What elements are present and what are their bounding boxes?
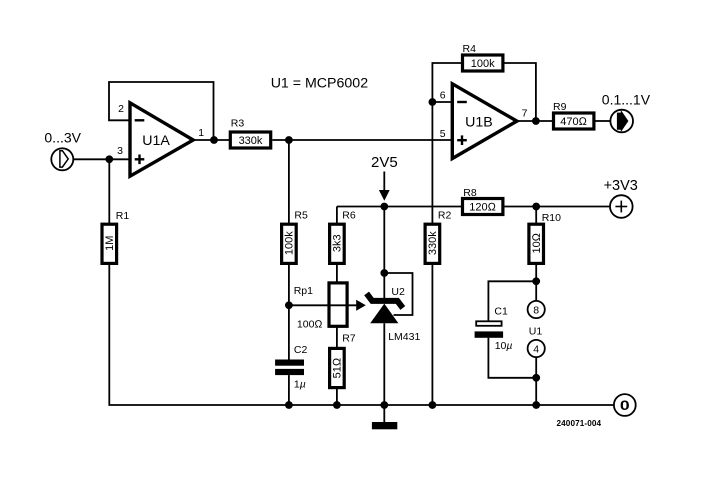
node U1A output junction [210, 136, 218, 144]
svg-text:10Ω: 10Ω [531, 232, 543, 253]
svg-text:U1 = MCP6002: U1 = MCP6002 [271, 76, 369, 92]
svg-text:R1: R1 [116, 210, 130, 222]
wire 2V5 node to U2 [383, 207, 385, 299]
resistor R10 10 ohm [529, 224, 544, 263]
wire R5 node to C2 [288, 305, 290, 359]
wire R8 to +3V3 [505, 206, 611, 208]
svg-text:7: 7 [522, 107, 528, 119]
potentiometer Rp1 [329, 283, 347, 326]
wire U1A feedback loop [109, 82, 214, 140]
node R3 output junction [285, 136, 293, 144]
svg-text:+3V3: +3V3 [604, 178, 638, 194]
node U2 cathode junction [380, 269, 388, 277]
svg-text:R4: R4 [463, 43, 477, 55]
svg-text:10µ: 10µ [495, 340, 513, 352]
svg-text:U1: U1 [529, 326, 543, 338]
svg-text:R2: R2 [438, 210, 452, 222]
input terminal 0...3V [51, 148, 73, 170]
svg-text:U1B: U1B [465, 115, 493, 131]
node input junction [105, 155, 113, 163]
wire node to pin8 circle [535, 281, 537, 301]
svg-text:0: 0 [620, 397, 630, 413]
svg-text:100Ω: 100Ω [297, 319, 323, 331]
resistor R4 100k [463, 55, 503, 71]
svg-text:240071-004: 240071-004 [557, 419, 602, 428]
wire U2 reference loop [384, 273, 412, 315]
wire pin4 node to rail [535, 378, 537, 405]
node rail U2 junction [380, 401, 388, 409]
svg-text:8: 8 [533, 305, 539, 317]
svg-text:U2: U2 [391, 286, 405, 298]
wire R5 to wiper node [288, 263, 290, 306]
wire input to U1A pin3 [74, 158, 131, 160]
shunt regulator U2 LM431 [367, 293, 403, 323]
svg-text:6: 6 [440, 90, 446, 102]
resistor R8 120 ohm [463, 199, 503, 215]
op-amp U1A [130, 103, 193, 176]
node 2V5 junction [380, 203, 388, 211]
resistor R9 470 ohm [554, 113, 594, 129]
resistor R3 330k [230, 132, 270, 148]
resistor R5 100k [282, 224, 297, 263]
svg-text:470Ω: 470Ω [560, 116, 587, 128]
capacitor C2 1u [275, 360, 304, 376]
resistor R6 3k3 [330, 224, 345, 263]
wire wiper arrow of Rp1 [289, 300, 366, 311]
wire C1 branch top [488, 281, 536, 321]
svg-text:3: 3 [117, 145, 123, 157]
wire pin6 node to U1B [432, 101, 452, 103]
capacitor C1 10u polarized [475, 321, 504, 338]
output terminal 0.1...1V [610, 110, 633, 133]
svg-text:R3: R3 [231, 118, 245, 130]
svg-text:5: 5 [440, 128, 446, 140]
svg-text:Rp1: Rp1 [294, 285, 313, 297]
wire R7 to ground rail [336, 388, 338, 405]
svg-text:1M: 1M [104, 236, 116, 251]
power terminal +3V3 [610, 195, 633, 218]
svg-text:330k: 330k [239, 135, 263, 147]
svg-text:4: 4 [533, 344, 539, 356]
svg-text:R10: R10 [542, 212, 561, 224]
node C1 bottom junction [532, 374, 540, 382]
wire R10 to pin8 node [535, 263, 537, 282]
wire C1 branch bottom [488, 338, 536, 378]
svg-text:2V5: 2V5 [371, 154, 398, 171]
svg-text:0...3V: 0...3V [44, 130, 81, 146]
wire U1B output to R9 [518, 120, 554, 122]
wire pin4 circle to bottom node [535, 357, 537, 378]
wire R2 to rail [431, 263, 433, 405]
node rail R7 junction [333, 401, 341, 409]
svg-text:1µ: 1µ [294, 379, 306, 391]
wire R9 to output terminal [596, 120, 611, 122]
node U1B pin6 junction [429, 98, 437, 106]
svg-text:100k: 100k [471, 58, 495, 70]
svg-text:R9: R9 [553, 101, 567, 113]
svg-text:C2: C2 [294, 344, 308, 356]
node U1B output junction [532, 117, 540, 125]
wire R4 feedback right [505, 63, 536, 121]
wire C2 to rail [288, 375, 290, 405]
wire pin6 node down to R2 [431, 102, 433, 224]
svg-text:R5: R5 [294, 210, 308, 222]
pin circle 4 of U1 [528, 340, 545, 357]
resistor R2 330k [425, 224, 440, 263]
wire 2V5 horizontal line [337, 206, 463, 208]
node rail C2 junction [285, 401, 293, 409]
svg-text:R6: R6 [342, 210, 356, 222]
wire node to R5 [288, 140, 290, 224]
node pin8 junction [532, 277, 540, 285]
svg-text:R7: R7 [342, 332, 356, 344]
wire R4 feedback left [432, 63, 461, 102]
svg-text:U1A: U1A [142, 133, 170, 149]
ground [372, 405, 397, 429]
terminal 0 [614, 394, 636, 416]
svg-text:120Ω: 120Ω [469, 202, 496, 214]
wire R1 to ground rail [109, 263, 614, 405]
svg-text:LM431: LM431 [388, 331, 420, 343]
svg-text:1: 1 [198, 127, 204, 139]
node rail U1 pin4 junction [532, 401, 540, 409]
wire R1 top [108, 159, 110, 224]
pin circle 8 of U1 [528, 301, 545, 318]
wire 2V5 line left corner to R6 [336, 207, 338, 225]
wire 2V5 arrow [379, 172, 390, 201]
svg-text:0.1...1V: 0.1...1V [602, 91, 651, 107]
resistor R7 51 ohm [330, 348, 345, 387]
svg-text:3k3: 3k3 [332, 234, 344, 252]
wire R3 to node [272, 139, 289, 141]
wire R6 to Rp1 [336, 263, 338, 283]
svg-text:330k: 330k [427, 231, 439, 255]
wire U1A output to R3 [195, 139, 230, 141]
wire +3V3 node to R10 [535, 207, 537, 225]
node R10 top junction [532, 203, 540, 211]
svg-text:C1: C1 [494, 305, 508, 317]
wire node to U1B pin5 [289, 139, 453, 141]
node wiper junction [285, 301, 293, 309]
wire U2 anode to rail [383, 323, 385, 405]
svg-text:2: 2 [118, 103, 124, 115]
resistor R1 1M [102, 224, 117, 263]
svg-text:51Ω: 51Ω [332, 357, 344, 378]
op-amp U1B [452, 84, 517, 159]
wire Rp1 to R7 [336, 326, 338, 349]
node rail R2 junction [429, 401, 437, 409]
svg-text:100k: 100k [284, 231, 296, 255]
